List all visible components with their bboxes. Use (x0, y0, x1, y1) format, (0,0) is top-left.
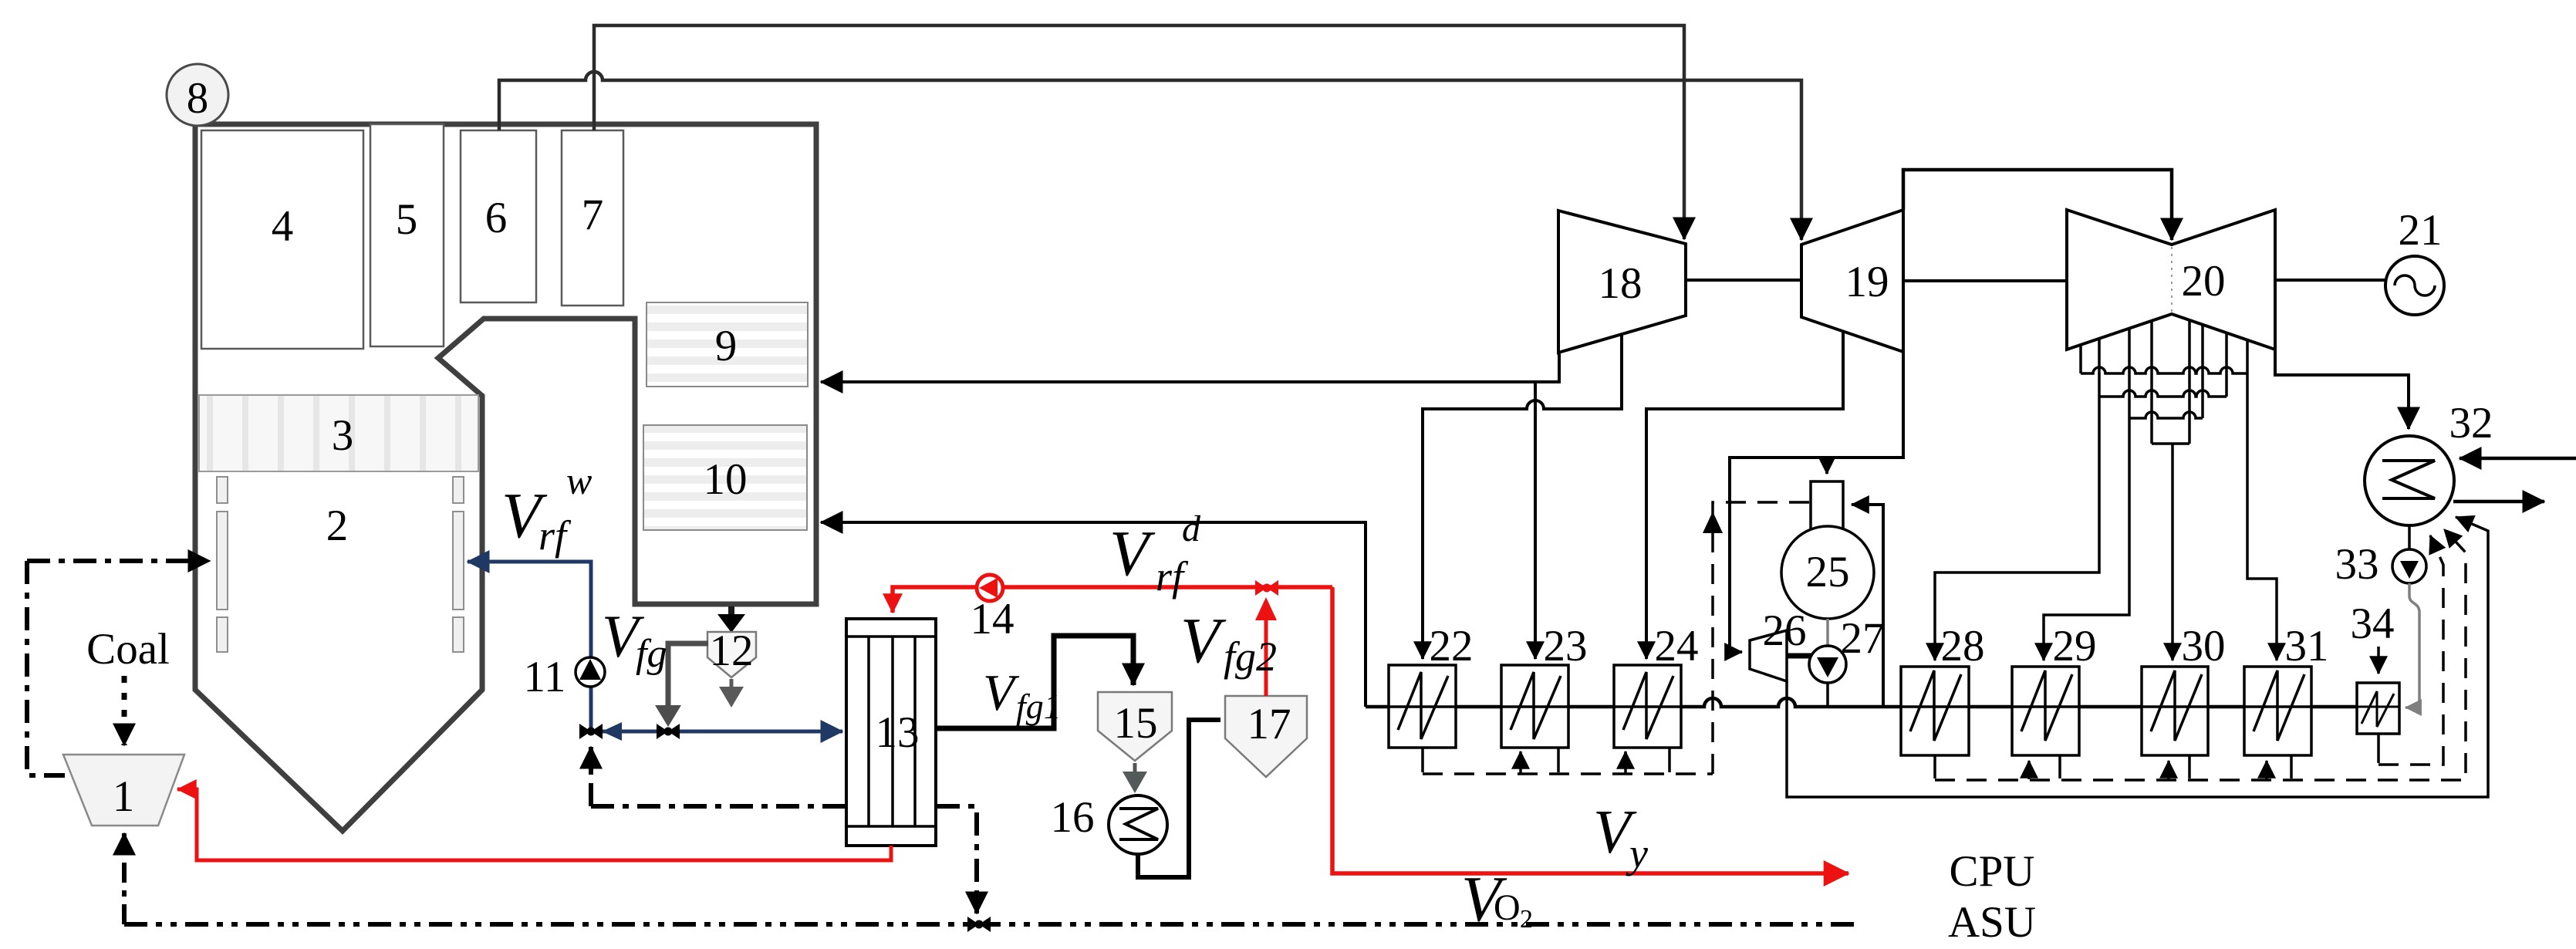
svg-text:4: 4 (272, 202, 294, 251)
svg-text:22: 22 (1430, 622, 1474, 670)
wire drain dashed 28-31 to condenser (1935, 529, 2466, 780)
wire pump 33 to gland heater 34 (2406, 583, 2419, 708)
wire condensate into deaerator neck (1852, 505, 1883, 707)
wire drain riser dashed to deaerator neck (1713, 502, 1809, 774)
wire oxygen dash-dot to burners (27, 559, 210, 563)
svg-text:fg1: fg1 (1016, 687, 1062, 726)
shaft 18-19 (1686, 279, 1801, 282)
LP extraction collector box to heater 30 (2152, 442, 2189, 445)
heater 31 (2244, 667, 2311, 755)
wire extraction to heater 23 (1534, 382, 1537, 659)
svg-text:32: 32 (2449, 399, 2493, 447)
svg-text:fg: fg (636, 632, 667, 676)
svg-text:5: 5 (396, 195, 418, 244)
drain arrow into heater 30 (2167, 761, 2170, 779)
coal mill 1 (63, 755, 184, 826)
LP extraction stub f (2201, 325, 2204, 418)
svg-text:12: 12 (710, 626, 754, 675)
svg-text:V: V (983, 664, 1020, 721)
separator 17 (1225, 696, 1307, 777)
wire cooler 16 to separator 17 (1138, 720, 1220, 877)
flue gas cooler 13 (846, 619, 936, 846)
LP extraction stub d (2150, 321, 2153, 444)
HP turbine 18 (1558, 211, 1686, 353)
wire drain dashed 22-24 to deaerator riser (1423, 772, 1713, 775)
generator 21 (2385, 256, 2444, 315)
svg-text:15: 15 (1114, 699, 1158, 748)
wire wet recirculation blue (468, 562, 591, 731)
LP extraction stub g (2225, 333, 2228, 397)
valve flue gas tap (657, 724, 668, 739)
shaft 19-20 (1903, 279, 2067, 282)
deaerator 25 (1781, 526, 1874, 619)
heater 29 (2012, 667, 2079, 755)
wire ash discharge from 12 (730, 679, 734, 690)
svg-text:23: 23 (1544, 622, 1588, 670)
svg-text:19: 19 (1845, 258, 1889, 306)
heater 23 (1501, 665, 1568, 748)
condensate pump 33 (2392, 549, 2426, 583)
wire flue gas 13 to separator 15 (936, 636, 1133, 728)
heater 22 (1389, 665, 1456, 748)
wire steam drop into deaerator 25 (1825, 458, 1828, 474)
wire oxygen dash-dot bottom main ASU (124, 922, 1861, 927)
drain riser arrowhead (1703, 512, 1723, 533)
svg-text:17: 17 (1247, 700, 1291, 748)
wire hot gas from 13 to mill 1 (177, 789, 891, 860)
drain arrow into heater 31 (2265, 761, 2268, 779)
separator 15 (1098, 692, 1172, 761)
wire cold reheat: HP turbine 18 exhaust to bank 9 (821, 351, 1559, 382)
wire feedwater to economizer 10 (821, 522, 1366, 707)
wire blue line to cooler 13 (591, 730, 842, 734)
svg-text:18: 18 (1599, 259, 1642, 308)
heater 24 drain stub (1668, 748, 1671, 772)
svg-text:26: 26 (1763, 606, 1807, 655)
heater 30 (2142, 667, 2208, 755)
svg-text:1: 1 (113, 772, 135, 821)
IP turbine 19 (1801, 210, 1903, 352)
LP extraction stub h to heater 31 (2247, 340, 2277, 660)
valve on oxygen main (967, 917, 979, 932)
heating surface 5 (370, 124, 444, 346)
label V_y (1593, 799, 1648, 876)
label V_fg (602, 603, 667, 676)
economizer bank 10 (643, 425, 807, 530)
heater 24 (1614, 665, 1681, 748)
heater 31 drain stub (2290, 755, 2293, 778)
svg-text:8: 8 (187, 74, 209, 123)
wire crossover IP to LP (1903, 170, 2172, 240)
svg-text:ASU: ASU (1948, 898, 2036, 947)
wire dry recirculation main (893, 587, 1332, 613)
gland heater 34 drain stub and dashed to condenser (2377, 734, 2380, 763)
label V_fg2 (1180, 605, 1277, 680)
svg-text:w: w (566, 459, 592, 502)
economizer surface 4 (201, 130, 363, 349)
wire flue gas duct to hopper 12 (728, 606, 734, 616)
feed pump 27 (1826, 683, 1829, 707)
svg-text:14: 14 (971, 595, 1015, 643)
svg-text:13: 13 (876, 708, 920, 757)
wire oxygen branch arrow up to valve (589, 747, 593, 806)
heater 29 drain stub (2058, 755, 2061, 778)
wire label-34 arrow (2377, 647, 2380, 674)
drain arrow into heater 23 (1519, 751, 1522, 773)
superheater surface 7 (562, 130, 623, 306)
LP extraction stub c to heater 29 (2128, 329, 2131, 418)
svg-text:30: 30 (2182, 622, 2226, 670)
wire extraction to heater 22 from HP exhaust (1423, 334, 1622, 659)
BFPT turbine 26 (1750, 630, 1787, 681)
svg-text:7: 7 (582, 191, 604, 239)
svg-text:25: 25 (1806, 548, 1850, 596)
wire feedwater line (1366, 698, 2399, 707)
reheater bank 9 (647, 302, 808, 387)
svg-text:V: V (1109, 518, 1156, 589)
svg-text:V: V (1180, 605, 1227, 677)
LP extraction stub b to heater 28 (2098, 339, 2101, 397)
svg-text:2: 2 (326, 502, 349, 550)
svg-text:Coal: Coal (86, 625, 170, 674)
LP extraction bus 1 with jumpers (2081, 367, 2247, 373)
deaerator 25 neck (1811, 481, 1843, 529)
burner ports left (217, 477, 228, 652)
svg-text:2: 2 (1520, 905, 1533, 934)
wire separator 15 to fan 16 (1133, 763, 1137, 775)
wire vent gas to CPU (1332, 587, 1848, 873)
wire oxygen branch at cooler 13 left (591, 804, 846, 809)
heater 23 drain stub (1557, 748, 1560, 772)
air heater 3 (199, 395, 478, 471)
drain arrow into heater 29 (2027, 761, 2031, 779)
heater 28 drain stub (1933, 755, 1936, 778)
wire main steam: superheater 7 to HP turbine 18 (594, 25, 1684, 239)
fan 11 (576, 657, 605, 687)
svg-text:9: 9 (715, 322, 738, 370)
heater 22 drain stub (1421, 748, 1424, 772)
wire LP exhaust to condenser 32 (2275, 350, 2409, 429)
blue arrowhead into valve (602, 722, 622, 741)
wire IP exhaust to deaerator 25 and BFPT 26 (1730, 352, 1903, 652)
svg-text:24: 24 (1655, 622, 1699, 670)
LP turbine 20 center split line (2171, 247, 2173, 312)
LP turbine 20 (2067, 210, 2275, 350)
wire oxygen dash-dot left riser (27, 561, 65, 775)
heater 30 drain stub (2188, 755, 2191, 778)
svg-text:29: 29 (2053, 622, 2097, 670)
ash hopper 12 (707, 632, 756, 677)
svg-text:21: 21 (2399, 206, 2443, 255)
svg-text:6: 6 (485, 194, 508, 242)
label V_rf_d (1109, 508, 1201, 599)
svg-text:34: 34 (2351, 599, 2395, 648)
condenser 32 (2365, 436, 2454, 525)
wire condenser 32 to pump 33 (2408, 525, 2411, 551)
svg-text:16: 16 (1051, 793, 1095, 842)
label V_rf_w (501, 459, 592, 559)
heater 28 (1901, 667, 1969, 755)
svg-text:fg2: fg2 (1224, 633, 1277, 680)
svg-text:27: 27 (1841, 614, 1885, 663)
svg-text:d: d (1182, 508, 1201, 549)
wire coal dotted feed (122, 676, 127, 745)
LP extraction bus 2 with jumpers (2099, 390, 2227, 397)
shaft 26-27 (1787, 653, 1811, 659)
burner ports right (453, 477, 464, 652)
wire recirculated dry gas from 17 (1264, 617, 1268, 696)
svg-text:20: 20 (2182, 257, 2226, 306)
svg-text:3: 3 (332, 411, 354, 460)
wire BFPT 26 exhaust to condenser 32 (1787, 517, 2488, 797)
valve on dry recirculation (1255, 580, 1267, 596)
wire hot reheat: reheater 6 to IP turbine 19 (499, 72, 1801, 240)
svg-text:O: O (1494, 887, 1521, 928)
wire oxygen branch right of 13 down to main (937, 806, 977, 914)
wire cooling water out (2453, 500, 2544, 504)
svg-text:CPU: CPU (1950, 847, 2035, 896)
label V_O2 (1461, 863, 1533, 935)
boiler furnace and backpass wall (195, 124, 816, 831)
LP extraction stub a (2079, 345, 2082, 373)
svg-text:28: 28 (1941, 622, 1985, 670)
wire extraction to heater 24 from IP turbine 19 (1646, 331, 1843, 659)
valve wet recirculation (579, 724, 591, 739)
gland heater 34 (2357, 683, 2399, 734)
svg-text:33: 33 (2335, 540, 2379, 589)
wire oxygen into mill bottom (122, 833, 127, 924)
reheater surface 6 (461, 130, 536, 302)
drain arrow into heater 24 (1624, 751, 1627, 773)
label V_fg1 (983, 664, 1062, 726)
LP extraction bus 3 with jumpers (2129, 412, 2203, 418)
shaft 20-21 (2275, 279, 2386, 282)
wire deaerator 25 to pump 27 (1826, 619, 1829, 648)
svg-text:31: 31 (2285, 622, 2329, 670)
svg-text:11: 11 (524, 653, 566, 701)
fan 14 (977, 575, 1003, 601)
wire flue gas tap elbow V_fg (668, 643, 708, 708)
svg-text:10: 10 (704, 455, 748, 504)
gas cooler 16 (1109, 795, 1167, 854)
node 8 boiler marker circle (167, 64, 228, 126)
LP extraction stub e (2188, 320, 2191, 444)
svg-text:y: y (1626, 830, 1648, 876)
wire cooling water in (2460, 457, 2576, 461)
